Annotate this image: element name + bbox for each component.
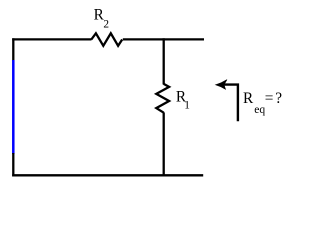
wire top-left horizontal	[12, 38, 91, 40]
svg-text:=: =	[265, 90, 274, 107]
wire top-right horizontal	[123, 38, 204, 40]
svg-text:R: R	[243, 90, 254, 107]
resistor R2	[91, 33, 122, 46]
svg-text:?: ?	[275, 90, 282, 107]
wire left vertical black bottom segment	[12, 153, 14, 176]
wire bottom horizontal	[12, 174, 203, 176]
arrow Req pointer line	[221, 85, 238, 122]
wire R1 branch bottom vertical	[163, 112, 165, 176]
wire R1 branch top vertical	[163, 38, 165, 84]
wire left vertical blue segment	[12, 60, 15, 154]
svg-text:2: 2	[103, 19, 109, 31]
arrow Req arrowhead	[216, 80, 227, 90]
svg-text:eq: eq	[254, 103, 265, 116]
resistor R1	[156, 84, 169, 113]
wire left vertical black top segment	[12, 38, 14, 61]
svg-text:1: 1	[184, 99, 190, 111]
